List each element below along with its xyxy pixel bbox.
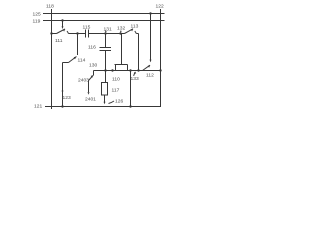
svg-text:111: 111 [55, 38, 63, 44]
svg-text:131: 131 [104, 27, 112, 33]
svg-text:2403: 2403 [78, 78, 89, 84]
svg-text:114: 114 [78, 58, 86, 64]
svg-text:113: 113 [131, 24, 139, 30]
svg-text:132: 132 [117, 26, 125, 32]
svg-text:123: 123 [63, 95, 71, 101]
svg-text:133: 133 [131, 76, 139, 82]
svg-text:122: 122 [156, 4, 164, 10]
svg-text:119: 119 [33, 19, 41, 25]
svg-text:2401: 2401 [85, 97, 96, 103]
svg-text:118: 118 [46, 4, 54, 10]
svg-text:116: 116 [88, 45, 96, 51]
svg-text:130: 130 [89, 63, 97, 69]
svg-text:126: 126 [115, 99, 123, 105]
svg-text:117: 117 [112, 88, 120, 94]
svg-text:112: 112 [146, 73, 154, 79]
svg-text:115: 115 [83, 25, 91, 31]
svg-text:110: 110 [112, 77, 120, 83]
svg-text:125: 125 [33, 12, 41, 18]
svg-text:121: 121 [34, 104, 42, 110]
